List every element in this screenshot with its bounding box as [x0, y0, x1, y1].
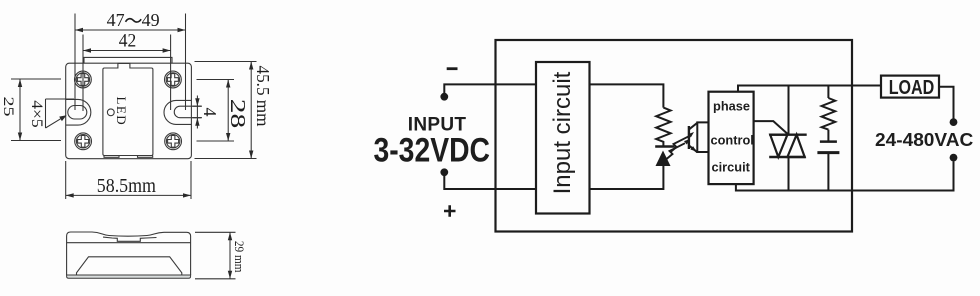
left mounting slot outer [66, 99, 91, 125]
input circuit block U1 [536, 62, 590, 214]
output terminal dot bottom [950, 154, 958, 162]
side view inner trapezoid [77, 257, 182, 275]
svg-text:LED: LED [114, 97, 129, 126]
svg-text:29 mm: 29 mm [232, 241, 247, 273]
svg-text:45.5 mm: 45.5 mm [253, 66, 273, 127]
svg-text:4: 4 [200, 108, 220, 117]
capacitor C1 plate top [820, 140, 837, 143]
svg-text:42: 42 [119, 31, 137, 51]
dimension 47~49 line [75, 29, 186, 31]
arrowhead 4x5 [59, 115, 66, 121]
minus sign [447, 67, 458, 70]
dimension 47~49 extension lines [75, 14, 186, 111]
screw bottom-left [75, 133, 92, 150]
svg-text:LOAD: LOAD [889, 77, 935, 99]
dimension 42 extension lines [83, 35, 171, 112]
input terminal dot minus [440, 93, 448, 101]
right mounting slot inner [174, 106, 202, 118]
wire internal bottom [590, 166, 664, 189]
center module [103, 63, 153, 157]
top rail [738, 86, 881, 92]
relay body top view [66, 57, 192, 158]
left mounting slot inner [68, 106, 87, 120]
LOAD box [881, 76, 939, 98]
svg-text:Input circuit: Input circuit [549, 71, 576, 194]
dimension 58.5 line [66, 194, 191, 196]
SSR outer box [496, 40, 853, 232]
dimension 25 extension lines [11, 79, 61, 141]
svg-text:control: control [711, 132, 754, 147]
emitter arrowhead [690, 146, 696, 151]
dimension 29mm [195, 232, 236, 278]
screw top-right [165, 71, 182, 88]
dimension 45.5 extension lines [195, 62, 257, 159]
resistor R2 snubber [822, 98, 836, 130]
side view baseplate [67, 275, 191, 278]
side view inner lip with center channel [103, 237, 157, 241]
arrowheads 28 [226, 80, 230, 88]
svg-text:58.5mm: 58.5mm [97, 175, 157, 197]
plus sign [444, 205, 456, 216]
dimension 28 line [227, 80, 229, 142]
svg-text:49: 49 [142, 10, 160, 30]
wire input bottom [444, 172, 536, 189]
triac Q2 [769, 135, 807, 157]
side view outline [67, 232, 191, 275]
phototransistor bracket [697, 122, 708, 152]
arrowheads 47~49 [75, 28, 83, 32]
wire internal top [590, 84, 664, 107]
phototransistor emitter [689, 146, 697, 152]
arrowheads 4 [195, 98, 199, 106]
dimension 45.5 line [250, 62, 252, 159]
phototransistor base bar [688, 126, 690, 149]
bottom rail [736, 162, 954, 191]
screw top-left [75, 71, 92, 88]
svg-text:4×5: 4×5 [28, 100, 45, 128]
arrowheads 45.5 [249, 62, 253, 70]
svg-text:phase: phase [713, 99, 750, 114]
dimension 58.5 extension lines [66, 161, 191, 199]
output terminal dot top [950, 118, 958, 126]
svg-text:47: 47 [107, 10, 125, 30]
snubber branch wire [827, 86, 829, 191]
side view seam [67, 242, 191, 244]
dimension 42 line [83, 50, 171, 52]
arrowheads 58.5 [66, 193, 74, 197]
triac gate wire [754, 121, 788, 134]
phase control circuit block U2 [709, 92, 754, 184]
LED D1 triangle [656, 151, 671, 167]
svg-text:3-32VDC: 3-32VDC [374, 132, 491, 170]
triac branch wire bottom [788, 157, 790, 191]
right mounting slot outer [164, 100, 191, 124]
svg-text:25: 25 [0, 97, 16, 117]
arrowheads 42 [83, 48, 91, 52]
LED D1 cathode bar [655, 145, 675, 147]
svg-text:24-480VAC: 24-480VAC [875, 130, 973, 150]
wire input top [444, 84, 536, 96]
capacitor C1 plate bottom [817, 151, 839, 154]
input terminal dot plus [440, 168, 448, 176]
4x5 leader [46, 99, 75, 128]
svg-text:28: 28 [226, 99, 250, 129]
triac branch wire top [788, 86, 790, 135]
resistor R1 [656, 108, 670, 147]
arrowheads 25 [18, 79, 22, 87]
LED indicator hole [107, 109, 114, 116]
svg-text:circuit: circuit [712, 159, 751, 174]
dimension 4 extension lines [193, 106, 202, 118]
opto light arrows [667, 136, 690, 159]
screw bottom-right [165, 133, 182, 150]
dimension 4 line [196, 96, 198, 129]
dimension 28 extension lines [197, 80, 235, 142]
dimension 25 line [19, 79, 21, 141]
phototransistor collector [689, 123, 697, 129]
load wire right [939, 87, 954, 119]
